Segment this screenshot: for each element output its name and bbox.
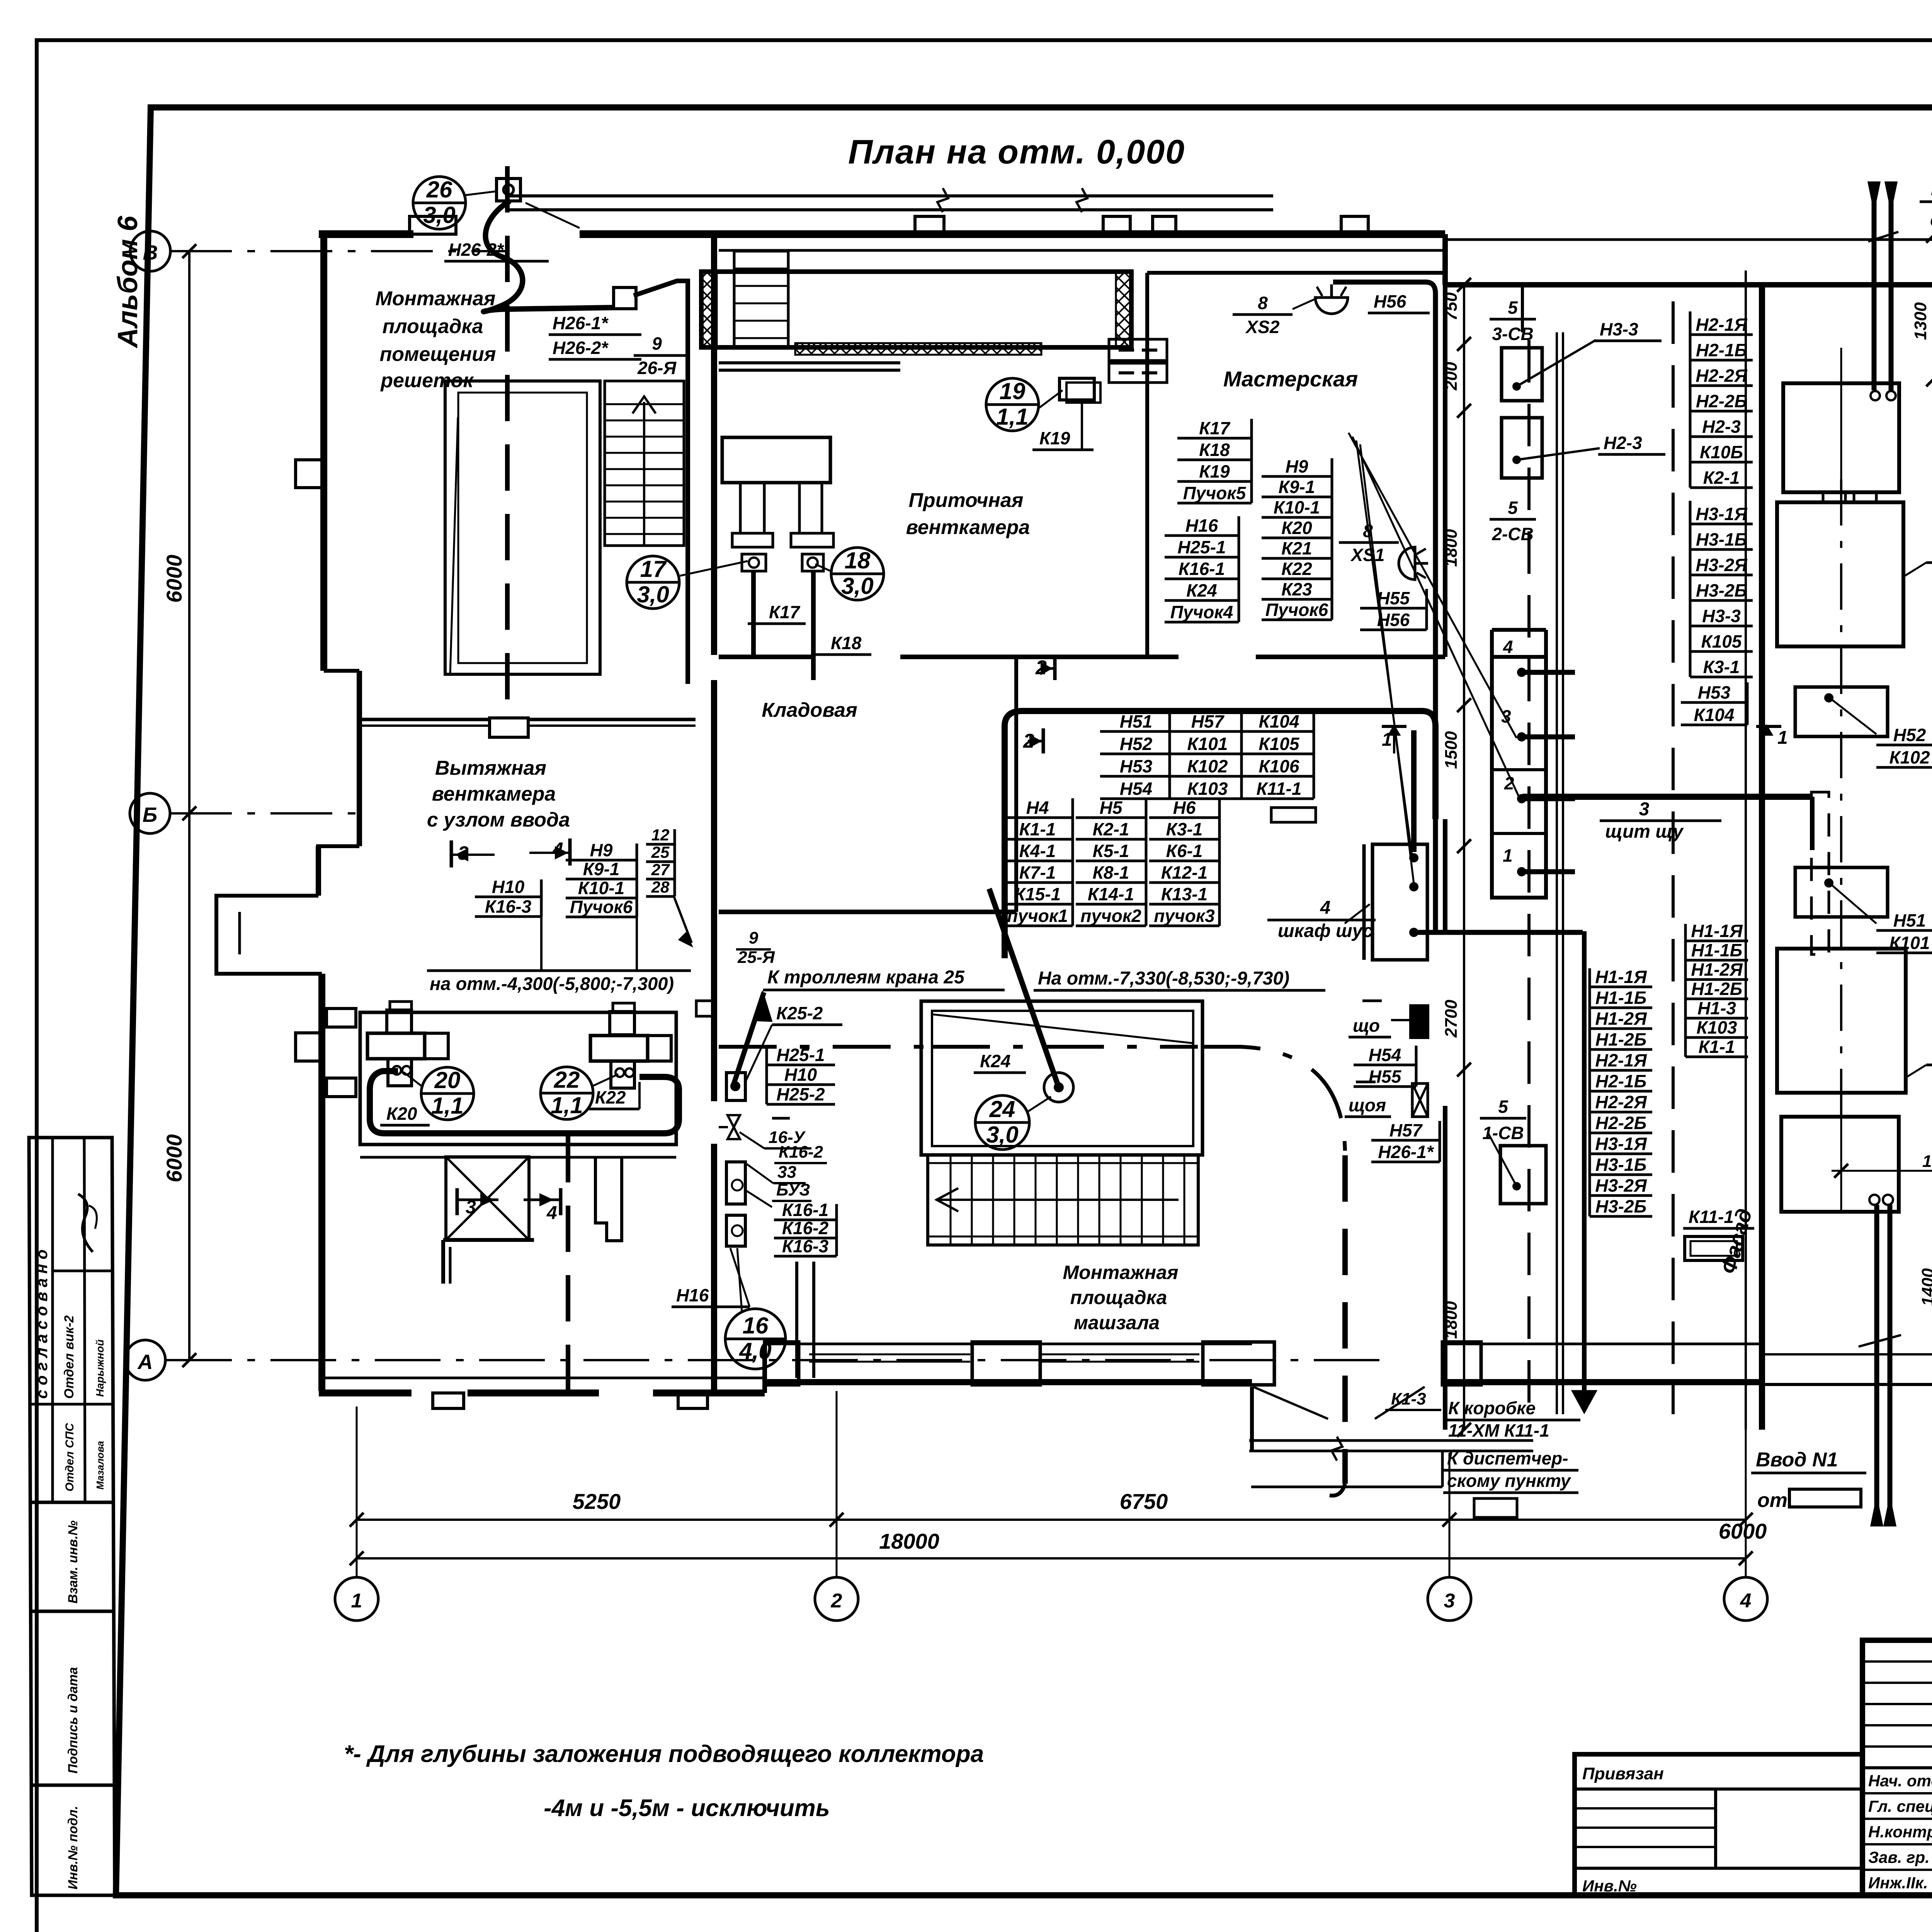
svg-text:К17: К17 xyxy=(1199,418,1231,438)
svg-text:К102: К102 xyxy=(1187,756,1228,776)
svg-text:К104: К104 xyxy=(1259,711,1299,731)
svg-text:Мастерская: Мастерская xyxy=(1223,367,1358,391)
svg-text:на отм.-4,300(-5,800;-7,300): на отм.-4,300(-5,800;-7,300) xyxy=(430,973,674,994)
pump unit 20 xyxy=(390,1002,412,1010)
crane beam rails xyxy=(506,194,1273,197)
machine hall left wall x2080 xyxy=(795,1262,798,1378)
west wall pilaster rects xyxy=(327,1009,356,1027)
svg-text:К16-2: К16-2 xyxy=(782,1218,829,1238)
svg-text:Н5: Н5 xyxy=(1100,798,1123,818)
svg-text:Н1-2Я: Н1-2Я xyxy=(1691,959,1743,980)
north outer wall west part xyxy=(319,230,413,238)
title block name rows xyxy=(1862,1767,1932,1769)
cable along masterskaya right xyxy=(1333,282,1435,931)
svg-text:площадка: площадка xyxy=(1070,1287,1167,1308)
bottom dim line total xyxy=(357,1557,1746,1560)
svg-text:пучок2: пучок2 xyxy=(1080,906,1141,926)
axis circle 2 xyxy=(815,1577,858,1621)
machine hall heavy cable path xyxy=(1005,711,1435,958)
black box ShchO xyxy=(1409,1004,1429,1039)
tag circle 17 xyxy=(627,556,679,609)
svg-text:18: 18 xyxy=(845,548,871,573)
switch symbol near 26 xyxy=(497,179,520,201)
svg-text:К16-1: К16-1 xyxy=(782,1200,828,1220)
svg-text:4: 4 xyxy=(1740,1590,1752,1612)
svg-text:Н26-2*: Н26-2* xyxy=(553,338,609,358)
north wall inner line xyxy=(719,249,1445,252)
svg-text:от: от xyxy=(1757,1489,1787,1512)
svg-text:Н1-1Я: Н1-1Я xyxy=(1691,921,1743,941)
svg-text:К4-1: К4-1 xyxy=(1019,841,1056,861)
louver boxes xyxy=(1109,339,1167,361)
svg-text:К10-1: К10-1 xyxy=(1274,497,1320,517)
svg-text:К9-1: К9-1 xyxy=(583,859,620,879)
svg-text:Инв.№: Инв.№ xyxy=(1582,1877,1637,1895)
svg-text:К23: К23 xyxy=(1281,579,1312,599)
canopy edge line xyxy=(1447,238,1932,241)
svg-text:К24: К24 xyxy=(980,1051,1010,1071)
svg-text:К16-2: К16-2 xyxy=(779,1143,823,1162)
title block outline xyxy=(1862,1640,1932,1895)
svg-text:4: 4 xyxy=(1320,898,1331,918)
svg-text:Н9: Н9 xyxy=(1286,456,1308,476)
svg-text:16: 16 xyxy=(743,1313,769,1338)
svg-text:2700: 2700 xyxy=(1442,1000,1461,1038)
svg-text:Н26-2*: Н26-2* xyxy=(448,240,504,260)
svg-text:К6-1: К6-1 xyxy=(1166,841,1203,861)
pump pit rect xyxy=(360,1012,676,1145)
svg-text:шкаф шус: шкаф шус xyxy=(1278,921,1373,941)
svg-text:Н3-1Б: Н3-1Б xyxy=(1696,529,1747,549)
svg-text:К1-1: К1-1 xyxy=(1019,819,1056,839)
svg-text:К102: К102 xyxy=(1889,747,1930,767)
svg-text:БУЗ: БУЗ xyxy=(776,1180,810,1199)
switch symbol 9 26-Ya xyxy=(614,287,636,309)
svg-text:Пучок6: Пучок6 xyxy=(570,897,633,917)
svg-text:8: 8 xyxy=(1258,293,1268,313)
svg-text:Кладовая: Кладовая xyxy=(762,699,857,721)
svg-text:К12-1: К12-1 xyxy=(1161,862,1207,883)
svg-text:К14-1: К14-1 xyxy=(1088,884,1134,904)
svg-text:К троллеям крана 25: К троллеям крана 25 xyxy=(767,967,965,988)
axis circle 3 xyxy=(1428,1577,1471,1621)
west wall step profile xyxy=(324,669,359,673)
svg-text:6000: 6000 xyxy=(162,1134,186,1182)
svg-text:1800: 1800 xyxy=(1442,1301,1461,1339)
svg-text:6000: 6000 xyxy=(1719,1519,1767,1543)
svg-text:Н1-3: Н1-3 xyxy=(1697,998,1736,1018)
svg-text:750: 750 xyxy=(1442,292,1461,321)
cable K17 xyxy=(751,571,756,657)
svg-text:9: 9 xyxy=(652,333,662,354)
vent room top wall xyxy=(719,361,900,364)
svg-text:К17: К17 xyxy=(769,602,801,622)
svg-text:Монтажная: Монтажная xyxy=(1063,1262,1179,1283)
thin wall right of cells xyxy=(1556,332,1558,1414)
tag circle 24 xyxy=(975,1095,1029,1150)
svg-text:К3-1: К3-1 xyxy=(1166,819,1203,839)
K24 crane trolley circle xyxy=(1044,1073,1073,1102)
wall device box 3 xyxy=(726,1215,745,1246)
north wall pilasters xyxy=(410,216,456,234)
svg-text:1,1: 1,1 xyxy=(996,404,1028,430)
kladovaya walls xyxy=(719,655,811,659)
leader lines from XS to cells xyxy=(1349,433,1517,738)
svg-text:Взам. инв.№: Взам. инв.№ xyxy=(66,1520,80,1604)
svg-text:Привязан: Привязан xyxy=(1582,1764,1664,1783)
svg-text:К106: К106 xyxy=(1259,756,1299,776)
south wall pilasters main xyxy=(765,1342,799,1385)
svg-text:Н25-2: Н25-2 xyxy=(776,1084,825,1104)
svg-text:33: 33 xyxy=(777,1163,796,1182)
box 2-SV xyxy=(1502,418,1542,478)
svg-text:Н2-2Я: Н2-2Я xyxy=(1696,366,1748,386)
svg-text:22: 22 xyxy=(554,1067,580,1093)
svg-text:помещения: помещения xyxy=(380,343,496,366)
svg-text:1,1: 1,1 xyxy=(431,1093,463,1119)
svg-text:1500: 1500 xyxy=(1442,731,1461,769)
svg-text:К103: К103 xyxy=(1696,1017,1737,1037)
axis circle A xyxy=(125,1340,165,1380)
svg-text:К1-1: К1-1 xyxy=(1699,1037,1735,1057)
svg-text:25-Я: 25-Я xyxy=(737,948,775,967)
cable down K11 xyxy=(1582,931,1587,1403)
fan unit 17 xyxy=(722,437,830,483)
west wall pilasters xyxy=(296,460,322,488)
svg-text:18000: 18000 xyxy=(879,1529,939,1553)
dashed crane line xyxy=(719,1045,923,1049)
leader to wall corner xyxy=(674,896,692,943)
L wall right of ventshaft xyxy=(595,1157,622,1241)
svg-text:К25-2: К25-2 xyxy=(776,1003,823,1023)
west annex uzel vvoda xyxy=(216,896,322,974)
vvod N1 cables xyxy=(1874,1205,1879,1526)
vvod N2 cables xyxy=(1872,182,1877,390)
bowtie valve on wall xyxy=(728,1115,740,1127)
tag circle 22 xyxy=(541,1067,593,1119)
svg-text:Пучок6: Пучок6 xyxy=(1265,600,1328,620)
svg-text:Н3-2Я: Н3-2Я xyxy=(1696,555,1748,575)
svg-text:Н1-1Б: Н1-1Б xyxy=(1595,988,1646,1008)
svg-text:Н2-3: Н2-3 xyxy=(1604,433,1642,453)
svg-text:Н3-2Б: Н3-2Б xyxy=(1696,580,1747,600)
svg-text:Приточная: Приточная xyxy=(909,489,1024,512)
svg-text:пучок1: пучок1 xyxy=(1007,906,1068,926)
svg-text:Н53: Н53 xyxy=(1120,756,1153,776)
svg-text:К19: К19 xyxy=(1199,461,1230,481)
masterskaya top wall inner xyxy=(1147,271,1445,275)
svg-text:Н9: Н9 xyxy=(590,840,613,860)
svg-text:20: 20 xyxy=(434,1067,461,1093)
svg-text:Нарыжной: Нарыжной xyxy=(94,1339,106,1397)
svg-text:Инв.№ подл.: Инв.№ подл. xyxy=(66,1806,80,1889)
machine hall stairs xyxy=(928,1155,1198,1245)
svg-text:4,0: 4,0 xyxy=(739,1338,771,1364)
svg-text:площадка: площадка xyxy=(383,315,483,338)
masterskaya west wall xyxy=(1145,273,1149,657)
svg-text:Н3-1Я: Н3-1Я xyxy=(1696,504,1748,524)
2-KTP box xyxy=(1777,502,1903,646)
left stamp column boxes xyxy=(29,1138,115,1895)
svg-text:Н57: Н57 xyxy=(1389,1120,1423,1140)
svg-text:Н2-1Б: Н2-1Б xyxy=(1595,1071,1646,1091)
svg-text:К16-3: К16-3 xyxy=(485,896,532,917)
svg-text:200: 200 xyxy=(1442,362,1461,391)
cable K18 xyxy=(811,571,816,680)
svg-text:12: 12 xyxy=(651,826,670,844)
svg-text:А: А xyxy=(137,1350,153,1374)
svg-text:Н3-2Б: Н3-2Б xyxy=(1595,1196,1646,1216)
svg-text:Н56: Н56 xyxy=(1374,291,1406,311)
svg-text:К11-1: К11-1 xyxy=(1689,1207,1734,1227)
svg-text:3: 3 xyxy=(1639,799,1650,820)
svg-text:К13-1: К13-1 xyxy=(1161,884,1207,904)
tag circle 19 xyxy=(986,378,1039,431)
svg-text:К105: К105 xyxy=(1259,734,1299,754)
svg-text:19: 19 xyxy=(1000,378,1026,404)
svg-text:Н54: Н54 xyxy=(1120,779,1152,799)
shkaf ShUS box xyxy=(1372,844,1427,960)
svg-text:В: В xyxy=(143,241,158,264)
svg-text:1,1: 1,1 xyxy=(551,1092,583,1118)
stair to plenum xyxy=(734,251,788,348)
dim 1700 xyxy=(1832,1170,1932,1172)
svg-text:Н3-2Я: Н3-2Я xyxy=(1595,1175,1647,1196)
left dimension line xyxy=(188,251,190,1360)
svg-text:Зав. гр.: Зав. гр. xyxy=(1868,1848,1930,1866)
svg-text:К101: К101 xyxy=(1889,933,1930,953)
svg-text:К10-1: К10-1 xyxy=(578,878,624,898)
svg-text:Н.контр.: Н.контр. xyxy=(1868,1823,1932,1841)
svg-text:що: що xyxy=(1353,1015,1380,1036)
svg-text:9: 9 xyxy=(749,929,759,947)
svg-text:К5-1: К5-1 xyxy=(1093,841,1129,861)
svg-text:2: 2 xyxy=(831,1590,842,1612)
svg-text:скому пункту: скому пункту xyxy=(1447,1471,1571,1491)
svg-text:Н3-1Б: Н3-1Б xyxy=(1595,1155,1646,1175)
labels 16-Y K16-2 xyxy=(772,1117,790,1120)
svg-text:К10Б: К10Б xyxy=(1700,442,1743,462)
svg-text:3: 3 xyxy=(1501,706,1511,726)
svg-text:1700: 1700 xyxy=(1922,1152,1932,1171)
svg-text:Н51: Н51 xyxy=(1120,711,1152,731)
svg-text:1300: 1300 xyxy=(1911,302,1930,340)
svg-text:Б: Б xyxy=(143,803,157,827)
supply plenum duct xyxy=(701,272,1131,347)
svg-text:Н25-1: Н25-1 xyxy=(1177,537,1226,557)
svg-text:К15-1: К15-1 xyxy=(1014,884,1061,904)
svg-text:-4м и -5,5м - исключить: -4м и -5,5м - исключить xyxy=(544,1795,830,1821)
svg-text:К9-1: К9-1 xyxy=(1279,477,1315,497)
svg-text:План на отм. 0,000: План на отм. 0,000 xyxy=(848,133,1185,171)
axis dash line В xyxy=(170,250,506,252)
svg-text:Н16: Н16 xyxy=(676,1285,709,1305)
small rect below xyxy=(1474,1498,1517,1517)
svg-text:решеток: решеток xyxy=(380,369,474,392)
svg-text:Н10: Н10 xyxy=(784,1065,817,1085)
grate room axis dashed xyxy=(505,166,510,718)
west outer wall xyxy=(320,234,327,671)
bowtie symbol ShchOYa xyxy=(1412,1083,1428,1117)
axis verticals xyxy=(356,1406,358,1577)
label shchoya xyxy=(1356,1081,1376,1083)
east outer wall axis4 xyxy=(1759,285,1765,1430)
svg-text:К16-1: К16-1 xyxy=(1179,559,1225,579)
svg-text:17: 17 xyxy=(640,556,667,582)
tag circle 26 xyxy=(413,177,466,229)
vertical dim line x3789 xyxy=(1463,285,1465,1430)
lamp XS2 xyxy=(1315,284,1348,314)
wall x1860 xyxy=(711,234,717,655)
svg-text:XS1: XS1 xyxy=(1350,545,1385,565)
svg-text:5: 5 xyxy=(1508,298,1518,318)
lamp XS1 xyxy=(1399,547,1428,580)
svg-text:К18: К18 xyxy=(831,633,862,653)
tag circle 16 xyxy=(725,1309,786,1369)
svg-text:XS2: XS2 xyxy=(1245,317,1280,337)
wall device box 2 xyxy=(726,1162,745,1204)
masterskaya bottom wall xyxy=(1147,655,1179,659)
svg-text:Н53: Н53 xyxy=(1698,682,1731,702)
small rect under table xyxy=(1271,808,1316,822)
svg-text:К20: К20 xyxy=(386,1104,417,1124)
svg-text:Н1-1Я: Н1-1Я xyxy=(1595,967,1647,987)
title block left extension xyxy=(1575,1754,1862,1895)
svg-text:Н51: Н51 xyxy=(1893,910,1926,930)
1-KTP box xyxy=(1777,949,1906,1093)
title block revision grid xyxy=(1862,1639,1932,1641)
shkaf cable drop xyxy=(1411,730,1417,852)
svg-text:Н1-1Б: Н1-1Б xyxy=(1691,940,1742,960)
svg-text:К коробке: К коробке xyxy=(1448,1398,1536,1418)
KTP center dash axis xyxy=(1840,479,1842,1121)
svg-text:Н3-3: Н3-3 xyxy=(1600,319,1638,339)
wall device box with dot xyxy=(726,1073,745,1100)
svg-text:Гл. спец: Гл. спец xyxy=(1868,1797,1932,1815)
svg-text:Н3-3: Н3-3 xyxy=(1702,606,1741,626)
svg-text:26-Я: 26-Я xyxy=(637,358,677,378)
svg-text:11-ХМ К11-1: 11-ХМ К11-1 xyxy=(1448,1420,1549,1440)
svg-text:Н55: Н55 xyxy=(1369,1066,1402,1087)
dashed KTP cable rect xyxy=(1811,792,1829,954)
label na otm -4300 xyxy=(427,969,691,972)
svg-text:1: 1 xyxy=(351,1590,362,1612)
svg-text:с о г л а с о в а н о: с о г л а с о в а н о xyxy=(32,1250,51,1399)
svg-text:К8-1: К8-1 xyxy=(1093,862,1129,883)
svg-text:К21: К21 xyxy=(1281,538,1312,558)
svg-text:Вытяжная: Вытяжная xyxy=(435,757,546,779)
svg-text:*- Для глубины заложения п: *- Для глубины заложения подводящего кол… xyxy=(344,1741,984,1767)
cable squiggle H26 xyxy=(483,201,612,312)
svg-text:Н3-1Я: Н3-1Я xyxy=(1595,1134,1647,1154)
svg-text:Н57: Н57 xyxy=(1191,711,1225,731)
south wall pilaster bumps west xyxy=(433,1393,464,1408)
vyt ventkamera walls xyxy=(359,718,490,721)
staircase vertical xyxy=(605,381,684,546)
heavy cable loop in pit xyxy=(370,1071,679,1133)
svg-text:2-СВ: 2-СВ xyxy=(1492,524,1533,544)
svg-text:Пучок4: Пучок4 xyxy=(1170,602,1233,622)
K24 crane cable xyxy=(989,889,1059,1087)
svg-text:Пучок5: Пучок5 xyxy=(1183,483,1247,503)
svg-text:К24: К24 xyxy=(1186,580,1217,600)
svg-text:К3-1: К3-1 xyxy=(1703,657,1740,677)
stamp signature squiggle xyxy=(78,1194,93,1252)
svg-text:Подпись и дата: Подпись и дата xyxy=(66,1667,80,1774)
svg-text:3: 3 xyxy=(1444,1590,1455,1612)
svg-text:1: 1 xyxy=(1503,845,1513,866)
svg-text:Н2-1Я: Н2-1Я xyxy=(1696,315,1748,335)
tag circle 18 xyxy=(831,548,884,600)
svg-text:щоя: щоя xyxy=(1349,1095,1386,1115)
svg-text:К101: К101 xyxy=(1187,734,1228,754)
svg-text:27: 27 xyxy=(651,861,670,879)
svg-text:К диспетчер-: К диспетчер- xyxy=(1447,1448,1568,1468)
svg-text:К18: К18 xyxy=(1199,440,1230,460)
svg-text:Н26-1*: Н26-1* xyxy=(1378,1142,1434,1162)
svg-text:25: 25 xyxy=(651,843,670,861)
axis circle В xyxy=(130,231,170,271)
step wall to east part xyxy=(1442,234,1448,285)
svg-text:1: 1 xyxy=(1777,728,1788,748)
svg-text:24: 24 xyxy=(989,1096,1015,1122)
box 3-SV xyxy=(1502,348,1542,401)
svg-text:6000: 6000 xyxy=(162,554,186,603)
axis circle 4 xyxy=(1724,1577,1767,1621)
vvod N2 terminal box xyxy=(1783,383,1899,492)
svg-text:1400: 1400 xyxy=(1918,1268,1932,1306)
bottom dim line segments xyxy=(357,1519,1746,1521)
svg-text:от: от xyxy=(1930,209,1932,231)
corridor wall x3740 xyxy=(1443,285,1447,657)
svg-text:Н2-3: Н2-3 xyxy=(1702,417,1741,437)
svg-text:Мазалова: Мазалова xyxy=(94,1441,106,1490)
svg-text:К2-1: К2-1 xyxy=(1093,819,1129,839)
svg-text:3-СВ: 3-СВ xyxy=(1492,324,1533,344)
corridor wall x3940 upper xyxy=(1521,285,1524,332)
north outer wall east part xyxy=(1445,282,1932,287)
lower KTP auxiliary box xyxy=(1781,1117,1899,1212)
svg-text:1800: 1800 xyxy=(1442,529,1461,567)
table H51-H54 K101-K103 K104-K11-1 xyxy=(1100,730,1314,733)
svg-text:4: 4 xyxy=(1503,637,1513,657)
long dashed verticals corridor xyxy=(1527,340,1531,1414)
svg-text:К104: К104 xyxy=(1694,705,1734,725)
entrance vestibule xyxy=(1250,1387,1254,1451)
svg-text:Н52: Н52 xyxy=(1893,725,1926,745)
svg-text:К103: К103 xyxy=(1187,779,1228,799)
svg-text:Н2-1Я: Н2-1Я xyxy=(1595,1050,1647,1070)
tag circle 20 xyxy=(421,1067,474,1120)
svg-text:3,0: 3,0 xyxy=(841,573,873,599)
axis dash line B xyxy=(170,812,367,815)
svg-text:Н52: Н52 xyxy=(1120,734,1153,754)
svg-text:К20: К20 xyxy=(1281,518,1312,538)
svg-text:5250: 5250 xyxy=(573,1489,621,1514)
heavy trolley feed cable xyxy=(733,992,764,1086)
cable from box to stair bay xyxy=(634,281,688,684)
svg-text:с узлом ввода: с узлом ввода xyxy=(427,809,570,831)
svg-text:К16-3: К16-3 xyxy=(782,1236,829,1256)
axis circle 1 xyxy=(335,1577,378,1621)
svg-text:26: 26 xyxy=(426,177,452,202)
crossed box ventshaft xyxy=(446,1157,529,1240)
svg-text:К11-1: К11-1 xyxy=(1257,779,1302,799)
svg-text:Н54: Н54 xyxy=(1369,1045,1401,1065)
KTP small boxes xyxy=(1795,687,1888,736)
socket symbol 19 xyxy=(1060,378,1094,400)
box 1-SV xyxy=(1500,1146,1546,1204)
